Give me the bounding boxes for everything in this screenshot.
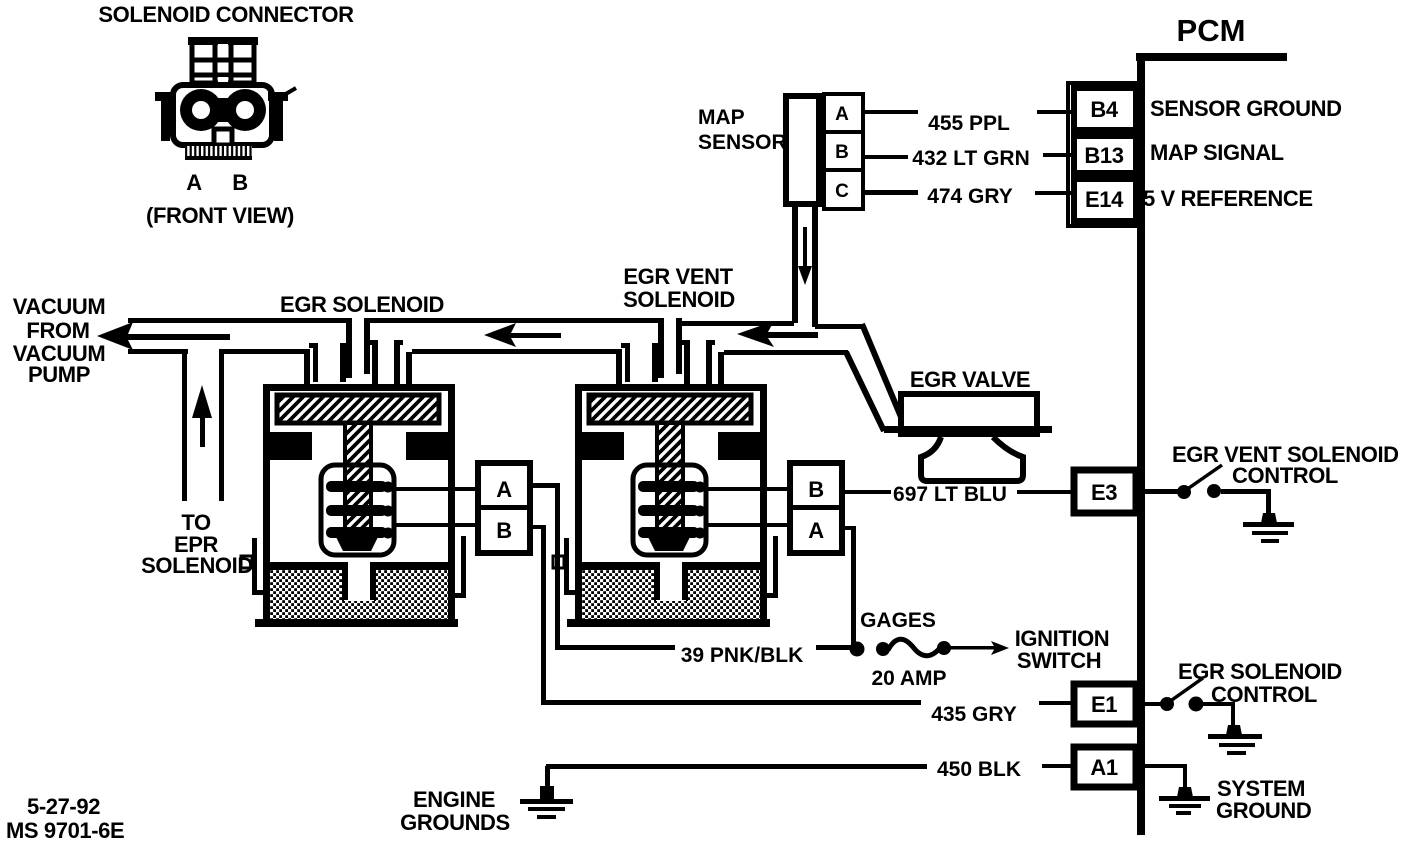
index notch xyxy=(214,129,232,145)
svg-text:GROUNDS: GROUNDS xyxy=(400,810,510,835)
wire to ground xyxy=(1203,702,1234,706)
pin box A1 xyxy=(1074,747,1136,787)
pipe 2 bottom line xyxy=(412,349,622,354)
pipe 3 floor xyxy=(724,350,848,355)
wire 450 BLK xyxy=(546,764,927,769)
wire 435 GRY right segment xyxy=(1039,701,1074,705)
svg-text:MAP SIGNAL: MAP SIGNAL xyxy=(1150,140,1284,165)
EPR branch right wall xyxy=(219,352,224,501)
svg-text:SOLENOID: SOLENOID xyxy=(141,553,253,578)
svg-text:A: A xyxy=(808,518,824,543)
svg-text:E1: E1 xyxy=(1091,692,1117,717)
svg-text:5 V REFERENCE: 5 V REFERENCE xyxy=(1143,186,1313,211)
svg-text:SWITCH: SWITCH xyxy=(1017,648,1101,673)
ear left xyxy=(155,92,175,101)
svg-text:A: A xyxy=(186,170,202,195)
bottom feet xyxy=(185,146,252,159)
svg-text:ENGINE: ENGINE xyxy=(413,787,495,812)
svg-text:B: B xyxy=(496,518,512,543)
PCM top bar xyxy=(1136,53,1287,61)
svg-text:A1: A1 xyxy=(1090,755,1117,780)
terminal cavity A xyxy=(180,89,222,131)
terminal cavity B xyxy=(224,89,266,131)
connector lock tower xyxy=(188,37,258,84)
svg-text:CONTROL: CONTROL xyxy=(1211,682,1317,707)
svg-text:EGR SOLENOID: EGR SOLENOID xyxy=(1178,659,1342,684)
up arrow in branch xyxy=(192,385,212,418)
svg-text:A: A xyxy=(496,477,512,502)
duct diagonal lower xyxy=(846,352,884,431)
wire from B to E1 (435 GRY) xyxy=(530,525,546,529)
switch contact dots xyxy=(1177,485,1191,499)
wire 455 PPL xyxy=(863,110,918,114)
EGR valve flange xyxy=(884,426,1052,433)
pipe 3 left arrow xyxy=(737,321,818,347)
svg-text:SENSOR: SENSOR xyxy=(698,131,787,154)
wire 39 PNK/BLK right segment xyxy=(816,645,856,650)
ground symbol E1 xyxy=(1226,725,1242,735)
svg-text:20 AMP: 20 AMP xyxy=(871,667,946,690)
pipe 2 top line xyxy=(364,318,664,323)
wire to ground xyxy=(1221,489,1269,494)
svg-text:39 PNK/BLK: 39 PNK/BLK xyxy=(681,644,804,667)
pipe 1 top line xyxy=(128,318,352,323)
svg-text:VACUUM: VACUUM xyxy=(13,294,106,319)
svg-text:GROUND: GROUND xyxy=(1216,798,1311,823)
sol2 left turndown xyxy=(616,349,622,385)
pin box B13 xyxy=(1074,136,1136,173)
svg-text:474 GRY: 474 GRY xyxy=(927,185,1013,208)
svg-text:B: B xyxy=(232,170,248,195)
pipe 1 bottom line left xyxy=(128,349,188,354)
svg-text:432 LT GRN: 432 LT GRN xyxy=(912,147,1029,170)
junction node (39 PNK/BLK feed) xyxy=(850,642,865,657)
svg-text:CONTROL: CONTROL xyxy=(1232,463,1338,488)
svg-text:C: C xyxy=(835,181,849,202)
svg-text:435 GRY: 435 GRY xyxy=(931,703,1017,726)
wire from B to E3 (697 LT BLU) xyxy=(842,490,891,494)
wire 697 LT BLU right segment xyxy=(1017,490,1074,494)
MAP pin box A xyxy=(824,94,863,132)
svg-text:MAP: MAP xyxy=(698,106,745,129)
pipe 3 ceiling left xyxy=(676,321,794,326)
ground symbol A1 (system ground) xyxy=(1177,787,1193,797)
svg-text:GAGES: GAGES xyxy=(860,609,936,632)
wire A1 to ground xyxy=(1145,764,1187,768)
MAP pin box B xyxy=(824,132,863,170)
MAP pin box C xyxy=(824,170,863,209)
pin box E3 xyxy=(1074,470,1136,513)
svg-text:SOLENOID CONNECTOR: SOLENOID CONNECTOR xyxy=(98,2,354,27)
duct diagonal upper xyxy=(862,324,901,417)
wire from A down to fuse junction xyxy=(842,526,856,530)
wire 455 PPL right segment xyxy=(1037,110,1074,114)
wire 450 BLK right segment xyxy=(1042,764,1074,768)
arrow to ignition switch xyxy=(950,646,998,650)
svg-text:SENSOR GROUND: SENSOR GROUND xyxy=(1150,96,1342,121)
ground symbol E3 xyxy=(1261,513,1277,523)
svg-text:450 BLK: 450 BLK xyxy=(937,758,1021,781)
wire from A to fuse junction xyxy=(530,483,560,488)
PCM vertical line xyxy=(1137,53,1145,835)
engine ground symbol xyxy=(545,766,550,788)
svg-text:B: B xyxy=(808,477,824,502)
svg-text:E3: E3 xyxy=(1091,480,1117,505)
pin box stack outer frame xyxy=(1068,83,1140,226)
svg-text:B13: B13 xyxy=(1084,143,1123,168)
pipe 3 ceiling right xyxy=(815,324,865,329)
svg-text:(FRONT VIEW): (FRONT VIEW) xyxy=(146,203,294,228)
svg-text:455 PPL: 455 PPL xyxy=(928,112,1010,135)
wire to switch xyxy=(1145,489,1181,494)
svg-text:PUMP: PUMP xyxy=(28,362,90,387)
svg-text:5-27-92: 5-27-92 xyxy=(27,794,100,819)
pipe 1 bottom line right xyxy=(219,349,310,354)
EGR valve stem xyxy=(921,437,1023,481)
down arrow in tube xyxy=(803,227,807,269)
fuse element wave xyxy=(888,639,940,656)
svg-text:EGR VENT: EGR VENT xyxy=(623,264,733,289)
MAP vacuum tube right line xyxy=(812,207,818,327)
svg-text:B4: B4 xyxy=(1090,97,1118,122)
pin box E1 xyxy=(1074,684,1136,724)
wire 432 LT GRN right segment xyxy=(1043,153,1074,157)
svg-text:697 LT BLU: 697 LT BLU xyxy=(893,483,1007,506)
pipe 2 left arrow xyxy=(484,323,561,347)
EGR solenoid assembly xyxy=(241,318,530,627)
pin box B4 xyxy=(1074,88,1136,130)
wire to switch xyxy=(1145,702,1163,706)
EGR vent solenoid assembly xyxy=(553,318,842,627)
pin box E14 xyxy=(1074,179,1136,221)
svg-text:B: B xyxy=(835,142,849,163)
MAP vacuum tube left line xyxy=(792,207,798,323)
wire 474 GRY right segment xyxy=(1035,191,1074,195)
MAP sensor body xyxy=(786,96,819,204)
EPR branch left wall xyxy=(182,352,187,501)
ear right xyxy=(268,92,288,101)
svg-text:EGR VALVE: EGR VALVE xyxy=(910,367,1030,392)
svg-text:SOLENOID: SOLENOID xyxy=(623,287,735,312)
switch lever xyxy=(1186,465,1222,490)
switch contact dots xyxy=(1160,697,1174,711)
connector body xyxy=(155,85,296,160)
fuse 20 AMP dot left xyxy=(876,642,890,656)
wire 474 GRY xyxy=(863,190,918,195)
wire 432 LT GRN xyxy=(863,155,908,159)
EGR valve body xyxy=(901,394,1037,434)
svg-text:MS 9701-6E: MS 9701-6E xyxy=(6,818,124,843)
svg-text:A: A xyxy=(835,104,849,125)
svg-text:EGR SOLENOID: EGR SOLENOID xyxy=(280,292,444,317)
vacuum arrow to pump xyxy=(97,322,230,350)
switch lever xyxy=(1169,678,1203,702)
svg-text:PCM: PCM xyxy=(1177,13,1246,48)
svg-text:FROM: FROM xyxy=(26,318,89,343)
svg-text:E14: E14 xyxy=(1085,187,1124,212)
